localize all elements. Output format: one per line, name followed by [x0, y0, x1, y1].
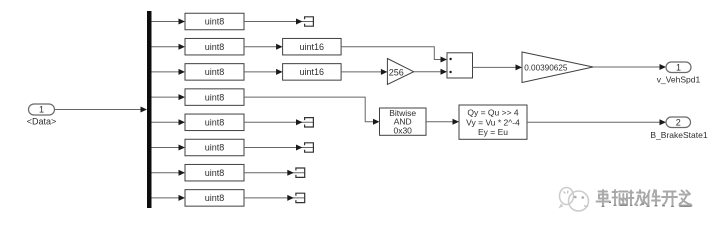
product block U1 — [447, 53, 473, 78]
wire demux to uint8 #6 — [152, 145, 186, 151]
wire product to gain 0.00390625 — [473, 64, 523, 70]
wire demux to uint8 #2 — [152, 44, 186, 50]
block uint8 #5 — [185, 114, 244, 131]
block uint8 #1 — [185, 13, 244, 30]
svg-text:2: 2 — [676, 117, 681, 127]
wire inport to demux — [55, 107, 148, 113]
wire bitwise AND to math block — [426, 119, 459, 125]
svg-text:v_VehSpd1: v_VehSpd1 — [657, 75, 701, 85]
wire uint8 #1 to terminator T1 — [244, 19, 313, 25]
svg-text:1: 1 — [39, 105, 44, 115]
svg-text:uint8: uint8 — [205, 118, 225, 128]
wire gain to outport 1 — [593, 64, 666, 70]
svg-text:uint8: uint8 — [205, 168, 225, 178]
block uint8 #2 — [185, 38, 244, 55]
block uint8 #6 — [185, 139, 244, 156]
svg-text:uint8: uint8 — [205, 92, 225, 102]
wire uint8 #5 to terminator T2 — [244, 119, 313, 125]
math block Qy — [459, 105, 527, 139]
wire uint8 #2 to uint16 #1 — [244, 44, 283, 50]
svg-text:uint8: uint8 — [205, 193, 225, 203]
svg-text:uint8: uint8 — [205, 67, 225, 77]
bitwise AND block — [380, 108, 427, 135]
wire uint8 #8 to terminator T5 — [244, 195, 304, 201]
block uint16 #1 — [283, 38, 342, 55]
svg-text:1: 1 — [676, 62, 681, 72]
wire uint8 #3 to uint16 #2 — [244, 69, 283, 75]
block uint8 #3 — [185, 64, 244, 81]
svg-text:Ey = Eu: Ey = Eu — [478, 127, 508, 137]
outport 2 — [666, 117, 691, 128]
terminator T2 — [305, 118, 314, 127]
svg-text:uint16: uint16 — [300, 42, 325, 52]
terminator T3 — [305, 143, 314, 152]
wire uint16 #2 to gain 256 — [341, 69, 387, 75]
svg-text:Vy = Vu * 2^-4: Vy = Vu * 2^-4 — [466, 117, 520, 127]
wire uint8 #7 to terminator T4 — [244, 170, 304, 176]
svg-text:uint8: uint8 — [205, 42, 225, 52]
outport 1 — [666, 62, 691, 73]
svg-text:256: 256 — [389, 67, 404, 77]
block uint8 #8 — [185, 190, 244, 207]
svg-text:uint8: uint8 — [205, 143, 225, 153]
watermark logo icon — [559, 188, 589, 212]
wire demux to uint8 #4 — [152, 94, 186, 100]
terminator T1 — [305, 17, 314, 26]
wire math block to outport 2 — [527, 119, 666, 125]
gain 0.00390625 — [522, 52, 593, 83]
svg-text:uint16: uint16 — [300, 67, 325, 77]
block uint8 #7 — [185, 164, 244, 181]
watermark text 车辆软件开发 — [597, 190, 692, 206]
wire uint16 #1 to product input 1 (with corner) — [341, 47, 447, 63]
inport 1 — [29, 104, 55, 115]
wire demux to uint8 #5 — [152, 119, 186, 125]
terminator T4 — [296, 168, 305, 177]
svg-text:0x30: 0x30 — [393, 125, 412, 135]
wire demux to uint8 #8 — [152, 195, 186, 201]
demux bar — [147, 11, 152, 208]
wire demux to uint8 #3 — [152, 69, 186, 75]
block uint16 #2 — [283, 64, 342, 81]
gain 256 — [387, 59, 413, 85]
wire demux to uint8 #1 — [152, 19, 186, 25]
block uint8 #4 — [185, 89, 244, 106]
terminator T5 — [296, 193, 305, 202]
wire gain 256 to product input 2 — [414, 69, 447, 75]
svg-text:Qy = Qu >> 4: Qy = Qu >> 4 — [467, 108, 519, 118]
svg-text:B_BrakeState1: B_BrakeState1 — [650, 130, 707, 140]
wire demux to uint8 #7 — [152, 170, 186, 176]
svg-text:uint8: uint8 — [205, 17, 225, 27]
svg-text:<Data>: <Data> — [27, 117, 57, 127]
wire uint8 #4 to bitwise AND (with corner) — [244, 97, 380, 125]
svg-text:0.00390625: 0.00390625 — [524, 63, 568, 72]
wire uint8 #6 to terminator T3 — [244, 145, 313, 151]
watermark text bottom shadow — [602, 203, 692, 207]
